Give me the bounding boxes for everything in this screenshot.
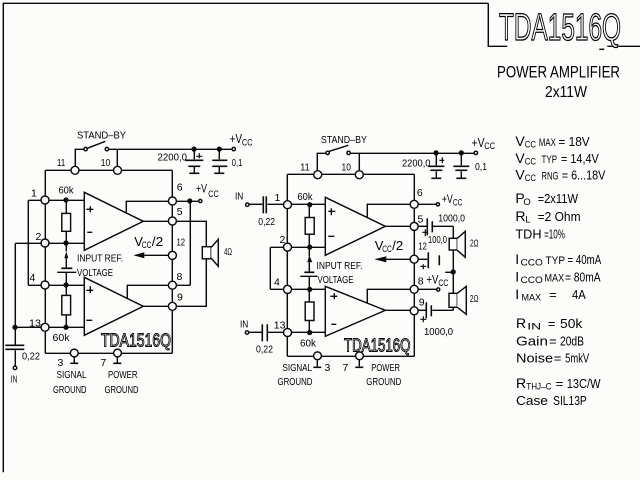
wire bottom rail middle [287,355,414,357]
svg-text:GROUND: GROUND [278,376,313,388]
svg-text:VOLTAGE: VOLTAGE [77,267,113,279]
svg-text:CCO: CCO [521,275,543,286]
svg-text:=10%: =10% [544,226,565,241]
wire left node column [44,170,46,353]
wire node 2 row [15,242,84,244]
node 11 middle [314,171,322,179]
svg-text:IN: IN [240,318,248,330]
wire pin5 to speaker [176,221,206,246]
wire pin9 to speaker [176,258,206,306]
capacitor C7 0,1 middle [453,151,469,178]
pin 12 circle [168,251,176,259]
svg-text:MAX: MAX [522,293,542,304]
svg-text:L: L [525,215,530,226]
title box around TDA1516Q [488,3,640,49]
svg-text:= 6...18V: = 6...18V [562,168,606,183]
node 11 [71,166,79,174]
speaker LS3 2ohm bottom [432,286,466,314]
wire switch branch pin11 [75,149,84,170]
svg-text:MAX: MAX [545,273,565,285]
svg-text:9: 9 [177,292,183,304]
svg-text:MAX: MAX [539,137,556,149]
svg-text:11: 11 [57,157,66,169]
svg-text:R: R [516,315,526,331]
capacitor C6 2200,0 middle [428,151,444,178]
wire amp1 output to pin5 [143,220,172,222]
op-amp U1A [84,192,143,250]
wire switch branch pin10 [108,149,232,170]
svg-text:IN: IN [235,190,243,202]
svg-text:8: 8 [177,271,183,283]
svg-text:11: 11 [300,161,310,173]
resistor R1 60k [62,198,71,245]
svg-text:STAND–BY: STAND–BY [321,134,367,146]
arrow Vcc/2 to pin12 [133,252,168,258]
spec Vcc TYP = 14,4V [515,150,599,168]
svg-text:GROUND: GROUND [366,376,401,388]
svg-text:SIGNAL: SIGNAL [57,369,87,381]
label +Vcc pin6 middle [442,194,463,207]
wire node 13 row [15,326,84,328]
terminal +Vcc top middle [474,151,477,154]
terminal +Vcc top left [232,147,235,150]
svg-text:CC: CC [208,189,219,199]
svg-text:7: 7 [101,357,107,369]
pin 5 circle middle [410,222,418,230]
svg-text:TDA1516Q: TDA1516Q [101,331,171,351]
wire left node column middle [286,174,288,356]
svg-text:=: = [549,334,557,349]
pin 9 circle middle [410,307,418,315]
svg-text:TDA1516Q: TDA1516Q [344,336,411,356]
label +Vcc pin6 left [196,184,219,200]
svg-text:CC: CC [242,137,253,147]
node 10 [114,166,122,174]
svg-text:+V: +V [230,131,243,146]
svg-text:20dB: 20dB [560,334,584,349]
wire switch branch pin11 middle [317,153,326,174]
capacitor C1 0,22 input [5,345,24,369]
svg-text:R: R [515,208,525,224]
svg-text:+V: +V [196,184,207,196]
svg-text:= 18V: = 18V [558,134,590,149]
node 10 middle [355,171,363,179]
node 2 [41,239,49,247]
svg-text:CC: CC [525,173,536,184]
svg-text:12: 12 [418,241,427,253]
svg-text:R: R [516,375,526,391]
svg-text:8: 8 [418,276,424,288]
label Vcc/2 middle [375,238,404,254]
svg-text:CC: CC [382,244,392,254]
svg-text:TYP: TYP [542,154,558,166]
node 1 middle [284,201,292,209]
ground pin 7 [113,349,121,363]
svg-text:Noise: Noise [516,351,553,366]
pin 5 circle [168,217,176,225]
svg-text:I: I [515,269,519,285]
svg-text:SIL13P: SIL13P [553,393,587,408]
svg-text:0,22: 0,22 [256,343,273,355]
spec Icco MAX = 80mA [515,269,600,287]
label +Vcc top middle [472,135,496,151]
spec Rthj-c = 13C/W [516,375,601,393]
capacitor C9 100,0 pin12 [418,252,439,269]
svg-text:+V: +V [442,194,453,206]
wire +Vcc pin8 middle [414,288,440,291]
capacitor C5 0,22 input bottom [248,324,283,341]
spec Noise = 5mkV [516,351,589,366]
spec Icco TYP = 40mA [515,251,601,269]
svg-text:CC: CC [525,157,536,168]
node 2 middle [284,243,292,251]
resistor R3 60k middle [305,203,314,249]
svg-text:=: = [549,287,557,302]
wire pin6 to amp top middle [367,204,410,217]
svg-text:5: 5 [177,206,183,218]
wire node 1 row middle [287,203,325,205]
svg-text:9: 9 [419,297,425,309]
node 4 [41,281,49,289]
svg-text:POWER: POWER [371,362,400,374]
wire bottom rail [45,352,172,354]
pin 6 circle [168,197,176,205]
svg-text:CC: CC [484,141,495,151]
input IN2 terminal [245,331,248,334]
wire node 1 row [28,199,84,201]
switch SW1 lever [87,141,105,148]
label Vcc/2 left [134,234,163,250]
op-amp U2B [325,286,385,336]
svg-text:1: 1 [31,187,37,199]
capacitor C10 1000,0 pin9 [418,302,431,322]
capacitor C3 0,1 [212,147,227,173]
svg-text:+V: +V [472,135,485,150]
svg-text:TDA1516Q: TDA1516Q [499,7,621,49]
svg-text:= 80mA: = 80mA [565,270,601,285]
svg-text:=: = [556,376,564,391]
border frame left+top [3,3,488,472]
pin 9 circle [168,302,176,310]
spec Rin = 50k [516,315,583,333]
wire node 4 row [28,284,84,286]
speaker LS2 2ohm top [445,226,465,293]
battery B1 input ref voltage with arrow [57,243,76,287]
svg-text:I: I [515,251,519,267]
arrow Vcc/2 to pin12 middle [374,256,410,262]
svg-text:CCO: CCO [521,258,543,269]
svg-text:7: 7 [343,362,349,374]
svg-text:STAND–BY: STAND–BY [77,130,126,142]
svg-text:2: 2 [280,234,286,246]
wire pin6 to amp top [126,201,172,212]
svg-text:SIGNAL: SIGNAL [283,362,313,374]
node 13 middle [284,329,292,337]
svg-text:10: 10 [342,161,352,173]
svg-text:GROUND: GROUND [105,384,139,396]
node 4 middle [284,285,292,293]
ground pin 3 middle [313,352,321,367]
svg-text:2x11W: 2x11W [545,84,588,101]
wire top bus middle [287,173,414,175]
spec TDH = 10% [515,226,565,241]
op-amp U2A [325,197,385,255]
svg-text:CC: CC [453,197,463,207]
svg-text:60k: 60k [300,338,317,350]
capacitor C4 0,22 input top [249,196,283,213]
svg-text:CC: CC [142,240,152,250]
svg-text:60k: 60k [298,191,314,203]
svg-text:Case: Case [516,393,548,408]
wire top bus left circuit [45,169,172,171]
spec Po = 2x11W [515,190,578,208]
pin 8 circle middle [410,285,418,293]
node 1 [41,196,49,204]
svg-text:60k: 60k [59,185,75,197]
svg-text:6: 6 [417,187,423,199]
node 13 [41,323,49,331]
wire pin8 to amp2 top middle [367,289,410,303]
label +Vcc pin8 middle [426,274,448,287]
wire node 4 row middle [270,288,325,290]
svg-text:1000,0: 1000,0 [424,326,453,338]
svg-text:4A: 4A [572,287,586,302]
svg-text:0,1: 0,1 [232,157,243,169]
spec Vcc RNG = 6...18V [515,167,605,185]
svg-text:10: 10 [101,157,111,169]
svg-text:= 40mA: = 40mA [568,252,602,267]
wire +Vcc pin6 middle [418,203,439,206]
ground pin 7 middle [355,352,363,367]
svg-text:GROUND: GROUND [53,384,87,396]
wire input column [14,243,16,345]
svg-text:=2 Ohm: =2 Ohm [538,209,581,224]
op-amp U1B [84,277,143,335]
svg-text:50k: 50k [560,316,583,331]
spec Imax = 4A [515,286,586,304]
wire switch branch pin10 middle [350,153,474,174]
svg-text:O: O [523,197,530,208]
svg-text:3: 3 [325,362,331,374]
label +Vcc top left [230,131,253,147]
svg-text:= 14,4V: = 14,4V [561,151,599,166]
svg-text:0,22: 0,22 [22,351,40,363]
pin 12 circle middle [410,255,418,263]
svg-text:IN: IN [11,373,17,385]
svg-text:=: = [548,316,556,331]
wire node 13 row middle [283,331,325,333]
capacitor C8 1000,0 pin5 [418,218,453,236]
svg-text:1: 1 [275,192,281,204]
spec RL = 2 Ohm [515,208,580,226]
svg-text:Gain: Gain [516,334,548,349]
wire amp2 output to pin9 middle [385,309,414,311]
pin 6 circle middle [410,200,418,208]
svg-text:3: 3 [58,357,64,369]
battery B2 input ref voltage with arrow middle [300,247,317,291]
wire node 2 row middle [270,246,325,248]
svg-text:=2x11W: =2x11W [538,191,579,206]
wire right pin bus middle [413,174,415,356]
svg-text:12: 12 [177,236,186,248]
input IN1 terminal [246,203,249,206]
resistor R2 60k [62,285,71,329]
svg-text:RNG: RNG [542,171,559,183]
svg-text:13C/W: 13C/W [567,376,601,391]
svg-text:5mkV: 5mkV [565,351,589,366]
svg-text:2200,0: 2200,0 [158,152,188,164]
svg-text:/2: /2 [152,234,163,249]
svg-text:4: 4 [30,272,36,284]
svg-text:2: 2 [36,231,42,243]
resistor R4 60k middle [305,289,314,334]
svg-text:VOLTAGE: VOLTAGE [318,274,354,286]
spec Gain = 20dB [516,334,584,349]
wire +Vcc pin6 branch [172,199,202,285]
svg-text:5: 5 [418,214,424,226]
wire bridge node1-node4 [27,200,29,285]
svg-text:13: 13 [29,317,41,329]
svg-text:2200,0: 2200,0 [402,158,431,170]
wire bridge node2-node4 middle [269,247,271,289]
svg-text:IN: IN [527,322,541,333]
capacitor C2 2200,0 [185,147,203,173]
svg-text:I: I [515,286,519,302]
svg-text:0,1: 0,1 [475,161,487,173]
svg-text:THJ–C: THJ–C [526,382,551,393]
svg-text:6: 6 [177,182,183,194]
svg-text:TYP: TYP [546,255,566,267]
svg-text:13: 13 [274,320,286,332]
svg-text:=: = [554,351,562,366]
svg-text:1000,0: 1000,0 [438,213,465,225]
svg-text:POWER: POWER [108,369,138,381]
svg-text:/2: /2 [392,238,403,253]
wire amp2 output to pin9 [143,305,172,307]
svg-text:0,22: 0,22 [258,216,275,228]
wire amp1 output to pin5 middle [385,225,414,227]
switch SW1 contacts [84,147,87,150]
svg-text:CC: CC [438,278,448,288]
svg-text:+V: +V [426,274,438,286]
ground pin 3 [70,349,78,363]
svg-text:100,0: 100,0 [428,234,447,246]
wire right pin bus [171,170,173,353]
node junction input [13,325,17,329]
spec Case SIL13P [516,393,587,408]
svg-text:2Ω: 2Ω [470,293,479,305]
svg-text:TDH: TDH [515,226,541,241]
svg-text:POWER AMPLIFIER: POWER AMPLIFIER [497,64,620,82]
svg-text:2Ω: 2Ω [470,237,479,249]
svg-text:INPUT REF.: INPUT REF. [77,253,123,265]
svg-text:4Ω: 4Ω [224,246,232,258]
svg-text:60k: 60k [53,332,71,344]
svg-text:4: 4 [274,276,280,288]
switch SW2 lever [329,145,348,151]
switch SW2 contacts [326,151,329,154]
svg-text:CC: CC [525,140,536,151]
pin 8 circle [168,281,176,289]
wire pin8 to amp2 top [127,285,168,298]
svg-text:INPUT REF.: INPUT REF. [317,260,363,272]
spec Vcc MAX = 18V [515,133,590,151]
speaker LS1 4ohm [202,239,218,266]
